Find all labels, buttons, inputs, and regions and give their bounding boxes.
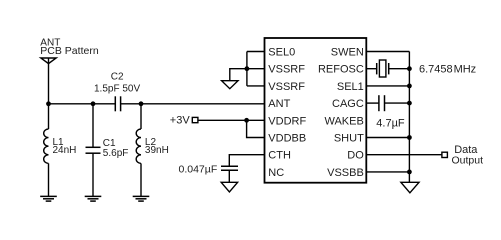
svg-text:5.6pF: 5.6pF (103, 148, 129, 159)
wire VSSRF stub (247, 68, 265, 70)
node junction REFOSC bus (407, 66, 412, 71)
svg-text:REFOSC: REFOSC (318, 64, 364, 76)
svg-text:VSSBB: VSSBB (327, 167, 364, 179)
svg-text:Output: Output (452, 154, 484, 166)
wire L1 bottom (48, 163, 50, 196)
node Data Output terminal square (442, 152, 448, 157)
svg-text:4.7µF: 4.7µF (376, 117, 405, 129)
svg-text:VSSRF: VSSRF (268, 81, 305, 93)
svg-text:PCB Pattern: PCB Pattern (40, 45, 99, 57)
wire SEL1 to bus (366, 85, 409, 87)
svg-text:ANT: ANT (268, 98, 290, 110)
svg-text:WAKEB: WAKEB (324, 115, 363, 127)
wire antenna lead (48, 58, 50, 104)
svg-text:NC: NC (268, 167, 284, 179)
inductor L2 label (145, 137, 169, 156)
wire right bus vertical (408, 52, 410, 183)
wire VSSRF to ground (230, 69, 247, 81)
wire CTH to cap (229, 155, 264, 167)
node junction SEL1 bus (407, 84, 412, 89)
svg-text:SWEN: SWEN (331, 47, 364, 59)
capacitor C1 (86, 147, 101, 153)
node junction SHUT bus (407, 135, 412, 140)
node junction VDDRF (244, 118, 249, 123)
node junction CAGC bus (407, 101, 412, 106)
inductor L2 (136, 129, 141, 163)
svg-text:DO: DO (347, 150, 364, 162)
svg-text:CTH: CTH (268, 150, 291, 162)
pin labels right (318, 47, 364, 179)
wire +3V to VDDRF (198, 119, 265, 121)
svg-text:+3V: +3V (170, 115, 191, 127)
node +3V terminal square (192, 117, 198, 122)
wire SHUT to bus (366, 137, 409, 139)
svg-text:6.7458 MHz: 6.7458 MHz (419, 64, 476, 76)
node junction VSSBB bus (407, 170, 412, 175)
wire DO to output terminal (366, 154, 442, 156)
wire main ANT net right segment (121, 103, 265, 105)
wire SEL0 stub (247, 51, 265, 53)
node junction at L1 (46, 101, 51, 106)
wire L1 top (48, 104, 50, 129)
capacitor C1 label (103, 138, 129, 159)
svg-text:CAGC: CAGC (332, 98, 364, 110)
ground (earth) under L1 (40, 196, 57, 201)
ground (earth) under L2 (133, 196, 150, 201)
wire VSSRF2 stub (247, 85, 265, 87)
svg-text:SHUT: SHUT (334, 133, 364, 145)
wire C1 bottom (92, 153, 94, 196)
node Data Output label (452, 144, 484, 167)
antenna ANT label (40, 38, 99, 58)
svg-text:VSSRF: VSSRF (268, 64, 305, 76)
antenna ANT symbol (41, 58, 56, 64)
crystal Y1 6.7458MHz (377, 63, 389, 74)
svg-text:SEL0: SEL0 (268, 47, 295, 59)
svg-text:C2: C2 (111, 72, 124, 83)
ground (triangle) right bus (401, 182, 419, 193)
inductor L1 (44, 129, 49, 163)
wire cap to ground (228, 170, 230, 182)
node junction at L2 (139, 101, 144, 106)
svg-text:24nH: 24nH (53, 145, 77, 156)
capacitor C-TH 0.047uF (221, 166, 238, 170)
capacitor C-AGC 4.7uF (379, 95, 385, 111)
wire REFOSC to crystal (366, 68, 376, 70)
wire L2 bottom (140, 163, 142, 196)
svg-text:VDDRF: VDDRF (268, 115, 306, 127)
wire CAGC to cap (366, 102, 379, 104)
svg-text:1.5pF 50V: 1.5pF 50V (94, 83, 140, 94)
wire VSSBB to bus (366, 171, 409, 173)
svg-text:39nH: 39nH (145, 145, 169, 156)
wire SWEN to bus (366, 51, 409, 53)
svg-text:0.047µF: 0.047µF (179, 163, 218, 175)
inductor L1 label (53, 137, 77, 156)
wire main ANT net left segment (49, 103, 116, 105)
pin labels left (268, 47, 306, 179)
wire VDDRF to VDDBB branch (247, 120, 265, 137)
wire crystal to bus (389, 68, 410, 70)
ground (triangle) CTH (221, 182, 237, 192)
ground (earth) under C1 (85, 196, 102, 201)
wire L2 top (140, 104, 142, 129)
wire SEL0/VSSRF tie bracket (246, 52, 248, 86)
op-amp, er, IC U1 body (265, 38, 367, 183)
capacitor C2 (115, 96, 120, 111)
ground (triangle) VSSRF (222, 81, 238, 89)
svg-text:VDDBB: VDDBB (268, 133, 306, 145)
wire C1 top (92, 104, 94, 148)
wire cap to bus (385, 102, 410, 104)
capacitor C2 label (94, 72, 140, 95)
node junction at C1 (91, 101, 96, 106)
svg-text:SEL1: SEL1 (337, 81, 364, 93)
node junction VSSRF (245, 66, 250, 71)
